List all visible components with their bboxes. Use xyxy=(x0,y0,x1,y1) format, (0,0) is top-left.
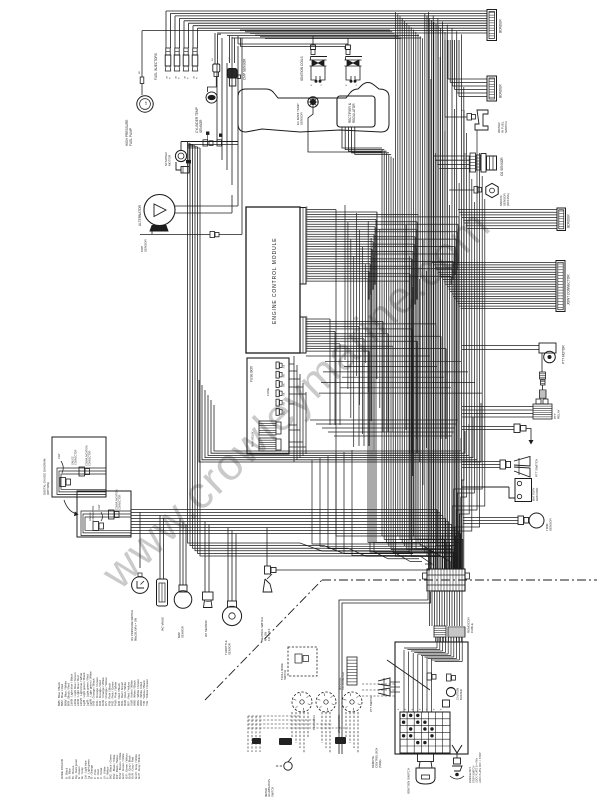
fuel injector #3 xyxy=(184,48,188,55)
wire top harness bundle xyxy=(166,10,487,12)
alternator xyxy=(144,195,175,226)
wire alternator leads xyxy=(175,205,238,207)
svg-text:LgB: LgB xyxy=(229,57,231,61)
water in fuel switch xyxy=(445,116,467,118)
arrow between gauge boxes xyxy=(64,500,77,514)
wire below remocon connector xyxy=(429,591,431,626)
wire ex mani sensor lead xyxy=(308,107,382,152)
wire starter leads xyxy=(180,142,182,151)
battery ground cable xyxy=(462,486,509,488)
fuel injector #1 xyxy=(166,48,170,55)
MAP sensor xyxy=(179,585,187,592)
exhaust manifold temp sensor xyxy=(308,97,318,107)
svg-text:SENSOR: SENSOR xyxy=(180,626,184,638)
wire meter dashed harness xyxy=(291,712,293,738)
starter relay xyxy=(259,438,276,451)
svg-text:FP: FP xyxy=(144,101,148,105)
svg-text:CAUTION: CAUTION xyxy=(456,688,460,700)
O2 sensor xyxy=(433,155,470,157)
wire loop-to-funnel verticals xyxy=(312,460,430,569)
PTT switch remote xyxy=(378,678,390,686)
svg-text:FUEL INJECTORS: FUEL INJECTORS xyxy=(154,53,158,80)
svg-text:SPEEDOMETER: SPEEDOMETER xyxy=(338,714,341,733)
main relay xyxy=(259,421,276,435)
inline connector remote 2 xyxy=(447,674,452,681)
svg-text:RELAY: RELAY xyxy=(557,409,561,419)
svg-text:CAP: CAP xyxy=(97,504,101,510)
svg-text:PTT MOTOR: PTT MOTOR xyxy=(562,345,566,364)
starter solenoid xyxy=(176,162,181,170)
svg-text:REGULATOR: REGULATOR xyxy=(352,103,356,123)
svg-text:CMP SENSOR: CMP SENSOR xyxy=(243,58,247,80)
svg-text:IAT SENSOR: IAT SENSOR xyxy=(204,620,208,637)
inline connector remote 1 xyxy=(427,673,432,680)
PTT switch engine xyxy=(462,461,500,463)
wire mesh extra verticals 2 xyxy=(405,225,407,430)
svg-text:Gr/Y : Gray / Yellow: Gr/Y : Gray / Yellow xyxy=(137,753,141,779)
svg-text:SENSOR: SENSOR xyxy=(144,238,148,252)
svg-text:O2 SENSOR: O2 SENSOR xyxy=(500,157,504,176)
wire CMP sensor feed xyxy=(229,36,231,64)
svg-text:GROUND: GROUND xyxy=(535,487,539,501)
svg-text:SWITCH: SWITCH xyxy=(283,670,287,680)
svg-text:MAIN RELAY: MAIN RELAY xyxy=(251,431,255,447)
wire bonder third leads xyxy=(458,209,557,211)
wire cylinder temp sensor feed xyxy=(214,33,216,64)
meter illumination switch xyxy=(284,762,292,770)
wire injector feed drops xyxy=(165,11,167,48)
fuel injector #4 xyxy=(193,48,197,55)
engine control module ECM xyxy=(246,207,300,353)
svg-text:PTT SWITCH: PTT SWITCH xyxy=(369,696,373,712)
wire sensor drops xyxy=(139,512,141,568)
wire ignition coil feed xyxy=(237,36,239,44)
neutral switch xyxy=(265,566,271,574)
svg-text:CABLE: CABLE xyxy=(470,623,474,633)
svg-text:CAP: CAP xyxy=(57,453,61,459)
gauge connector B inner xyxy=(93,522,99,531)
wire mid feeders xyxy=(216,64,218,142)
svg-text:SENSOR: SENSOR xyxy=(199,119,203,133)
troll mode switch xyxy=(288,647,317,676)
wire CKP sensor lead xyxy=(151,231,153,234)
connector remocon pair xyxy=(434,626,446,637)
wire gauge box A loops xyxy=(57,468,106,495)
IAC valve xyxy=(157,579,168,606)
ignition coil #2 xyxy=(347,38,349,45)
fuel injector #2 xyxy=(175,48,179,55)
wire meters to remote dashed xyxy=(362,683,395,685)
high pressure fuel pump xyxy=(137,96,153,112)
gauge connector box B xyxy=(77,491,131,537)
svg-text:SWITCH: SWITCH xyxy=(504,121,508,133)
IAT sensor xyxy=(203,592,214,600)
wire mesh horizontals lower xyxy=(306,355,430,357)
lanyard line xyxy=(387,660,430,690)
wire lower staircase xyxy=(188,508,411,551)
wire PTT switch remote leads xyxy=(390,681,400,683)
svg-text:MOTOR: MOTOR xyxy=(168,154,172,166)
svg-text:(DF115A): (DF115A) xyxy=(506,193,510,206)
oil pressure switch xyxy=(132,577,149,594)
svg-text:(SIDE): (SIDE) xyxy=(378,760,382,768)
PTT relay xyxy=(533,404,552,419)
svg-text:BUZZER: BUZZER xyxy=(459,689,463,700)
PTT motor connector chain xyxy=(541,353,543,372)
communication connector B xyxy=(109,510,115,519)
connector BONDER top xyxy=(487,10,497,41)
wire remote feed left xyxy=(339,592,428,754)
wire main harness verticals xyxy=(381,150,383,536)
connector remocon cable xyxy=(427,569,465,591)
remote small part xyxy=(443,700,450,707)
meter harness connectors xyxy=(279,738,292,745)
rectifier and regulator xyxy=(337,96,375,127)
svg-text:PTT SWITCH: PTT SWITCH xyxy=(535,459,539,477)
wire joint connector leads xyxy=(432,262,556,264)
svg-text:SWITCH: SWITCH xyxy=(270,787,274,797)
starter motor xyxy=(175,150,186,161)
svg-text:IGNITION SWITCH: IGNITION SWITCH xyxy=(407,768,411,794)
svg-text:CONNECTOR: CONNECTOR xyxy=(75,449,78,465)
svg-text:SENSOR: SENSOR xyxy=(227,643,231,655)
throttle sensor xyxy=(228,601,237,607)
svg-text:98≥(25LA)Pa = ON: 98≥(25LA)Pa = ON xyxy=(133,618,137,641)
ignition switch xyxy=(400,712,450,753)
svg-text:IGNITION COILS: IGNITION COILS xyxy=(300,56,304,81)
svg-text:WIRE COLOR: WIRE COLOR xyxy=(60,758,64,779)
svg-text:FUSE BOX: FUSE BOX xyxy=(250,365,254,382)
caution buzzer xyxy=(446,687,455,696)
wire bonder second leads xyxy=(448,78,487,80)
svg-text:BONDER: BONDER xyxy=(499,84,503,98)
wire gauge box B loops xyxy=(81,511,131,536)
fuses xyxy=(276,362,279,369)
svg-text:NEUTRAL SWITCH: NEUTRAL SWITCH xyxy=(260,617,264,641)
emergency stop switch xyxy=(452,745,462,753)
svg-text:(OPTION): (OPTION) xyxy=(46,482,50,495)
alternator mount xyxy=(150,226,168,232)
svg-text:ENGINE CONTROL MODULE: ENGINE CONTROL MODULE xyxy=(272,238,278,325)
svg-text:FUSE: FUSE xyxy=(266,388,270,396)
wire fuel pump feed xyxy=(141,31,143,77)
digital gauge diagram option box xyxy=(52,437,106,497)
svg-text:IAC VALVE: IAC VALVE xyxy=(161,617,165,631)
svg-text:BONDER: BONDER xyxy=(499,19,503,33)
svg-text:BG: BG xyxy=(212,58,214,61)
wire rectifier outputs xyxy=(342,127,382,148)
ECM connector block 1 xyxy=(300,208,306,285)
inline connector PTT xyxy=(462,426,514,428)
connector BONDER third xyxy=(557,208,566,231)
svg-text:BONDER: BONDER xyxy=(567,214,571,228)
svg-text:CONNECTOR: CONNECTOR xyxy=(92,505,95,521)
svg-text:JOINT CONNECTOR: JOINT CONNECTOR xyxy=(567,274,571,305)
monitor tachometer xyxy=(347,657,357,685)
wire top bundle branch downs xyxy=(240,29,390,31)
optional meters xyxy=(292,692,312,712)
communication connector inside xyxy=(60,478,66,487)
wire lower harness bundle xyxy=(131,509,437,511)
svg-text:FUEL PUMP: FUEL PUMP xyxy=(129,128,133,146)
remote control box xyxy=(395,642,468,754)
fuse box xyxy=(247,358,289,454)
gauge connector inside xyxy=(79,467,85,476)
svg-text:Y/G : Yellow / Green: Y/G : Yellow / Green xyxy=(145,679,149,706)
ECM connector block 2 xyxy=(300,317,306,353)
svg-text:CONNECTOR: CONNECTOR xyxy=(119,494,122,510)
trim sensor xyxy=(463,517,518,519)
cylinder temp sensor xyxy=(213,64,220,72)
wire mesh extra verticals xyxy=(344,205,346,360)
boundary dash-dot horizontal xyxy=(322,579,597,581)
wire ECM harness mesh block2 xyxy=(306,318,330,320)
cylinder head cover outline xyxy=(238,83,389,133)
wire ECM harness mesh block1 xyxy=(306,209,336,211)
svg-text:SENSOR: SENSOR xyxy=(300,111,304,125)
svg-text:LOCK PLATE OFF = STOP: LOCK PLATE OFF = STOP xyxy=(479,752,482,783)
CMP sensor xyxy=(227,69,237,79)
connector BONDER second xyxy=(487,76,497,101)
svg-text:CONNECTOR: CONNECTOR xyxy=(89,450,92,466)
boundary dash-dot diagonal xyxy=(205,580,322,700)
svg-text:SENSOR: SENSOR xyxy=(549,517,553,531)
wire fuse box outputs xyxy=(289,363,294,365)
connector JOINT CONNECTOR xyxy=(556,261,565,312)
wire left harness bundle xyxy=(187,142,189,508)
wire right mesh verticals xyxy=(462,110,464,569)
wire routing loop bundle xyxy=(199,380,481,462)
svg-text:ALTERNATOR: ALTERNATOR xyxy=(138,204,142,226)
wire remote box internals top xyxy=(436,637,438,648)
svg-text:BR: BR xyxy=(139,71,141,74)
wire remocon harness verticals xyxy=(428,12,430,569)
ignition key xyxy=(418,754,434,762)
svg-text:OIL PRESSURE SWITCH: OIL PRESSURE SWITCH xyxy=(130,610,134,641)
wire mid horizontals to right components xyxy=(310,419,458,421)
knock sensor xyxy=(449,189,474,191)
PTT motor xyxy=(539,343,556,353)
ignition coil #1 xyxy=(312,36,314,45)
wire PTT relay leads xyxy=(462,406,533,408)
wire PTT motor leads xyxy=(462,345,539,347)
svg-text:TACHOMETER: TACHOMETER xyxy=(341,672,345,690)
